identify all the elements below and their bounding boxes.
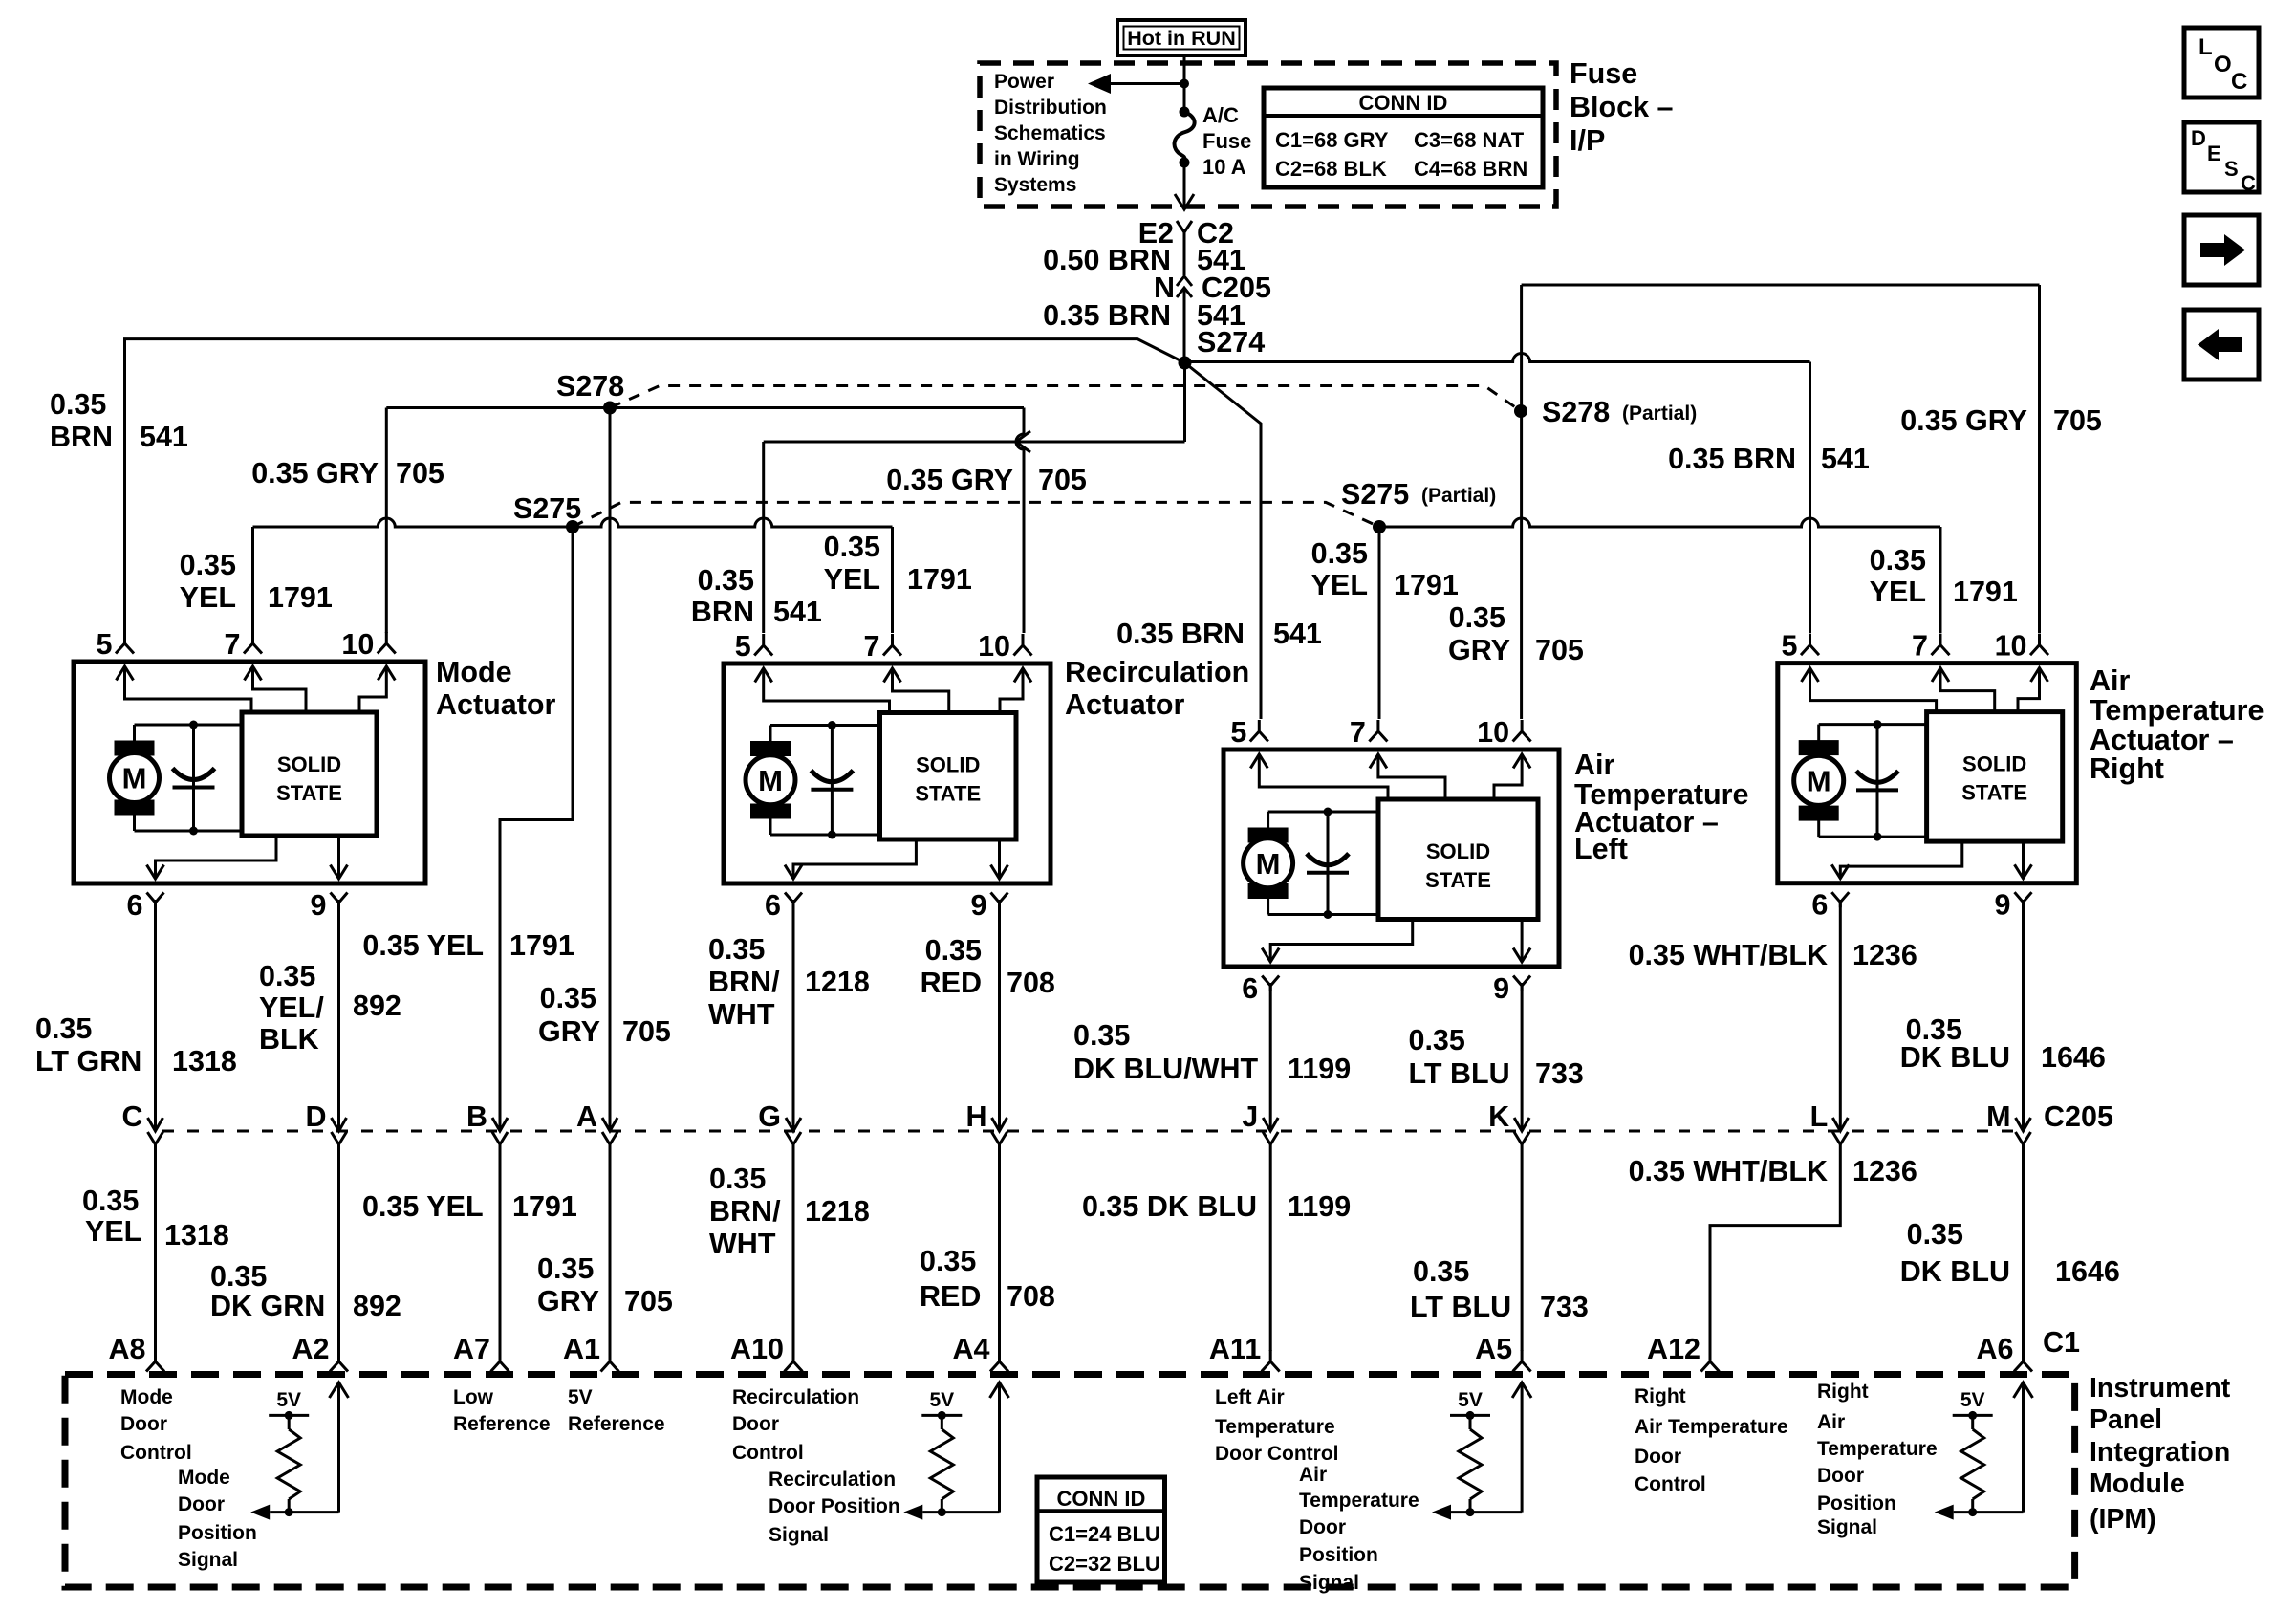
mode actuator pin 9 connector [311,889,348,922]
label 0.35 YEL 1791 (mode pin7) [180,549,333,614]
svg-text:Position: Position [1299,1544,1378,1566]
svg-text:Signal: Signal [769,1524,829,1546]
svg-text:705: 705 [624,1285,673,1317]
svg-text:Recirculation: Recirculation [1065,656,1249,688]
label 0.35 DK BLU 1646 (lower) [1900,1218,2120,1288]
svg-text:541: 541 [140,421,188,453]
connector A at C205 [576,1100,617,1144]
svg-text:Signal: Signal [1817,1516,1877,1538]
label 0.35 YEL 1318 (lower) [82,1185,229,1252]
label C1 (IPM connector) [2043,1326,2080,1359]
label Mode Door Control [120,1386,192,1464]
air temperature actuator right pin 7 internal wire [1932,668,1995,712]
CONN ID table (IPM) [1037,1477,1165,1582]
svg-text:S: S [2224,157,2239,181]
svg-text:Door: Door [1299,1516,1346,1538]
wire GRY 705 over S274 line to Air Temp Left pin10 [1520,285,1523,719]
svg-text:0.35: 0.35 [920,1245,976,1277]
svg-text:Air: Air [1817,1411,1845,1433]
recirculation actuator pin 6 internal wire [785,839,916,879]
svg-text:M: M [122,762,147,795]
svg-text:Door: Door [120,1413,167,1435]
svg-text:S278: S278 [1542,396,1610,428]
svg-text:10: 10 [978,630,1010,663]
svg-text:M: M [1986,1100,2010,1133]
mode actuator solid state module [242,712,377,836]
resistor 5V pull-up (right air temp position) [1935,1382,2033,1520]
wire arrow to power distribution (continues left) [1088,74,1184,94]
svg-text:541: 541 [1273,618,1322,650]
svg-text:CONN ID: CONN ID [1359,91,1448,115]
svg-text:Temperature: Temperature [1299,1490,1419,1512]
svg-text:0.35: 0.35 [1870,544,1926,577]
svg-text:SOLID: SOLID [1962,752,2026,776]
svg-text:C: C [121,1100,142,1133]
fuse block dashed box (Fuse Block - I/P) [980,63,1556,207]
svg-text:Power: Power [994,71,1054,93]
svg-text:M: M [1256,847,1281,881]
connector L at C205 [1810,1100,1849,1144]
svg-text:WHT: WHT [708,998,775,1031]
svg-text:O: O [2214,52,2232,77]
svg-text:5V: 5V [1960,1389,1985,1411]
recirculation actuator pin 9 connector [971,889,1008,922]
CONN ID table (fuse block) [1264,88,1543,187]
label Recirculation Door Position Signal [769,1469,900,1546]
svg-text:GRY: GRY [538,1015,600,1048]
air temperature actuator right motor supply rails [1819,725,1927,838]
resistor 5V pull-up (left air temp position) [1432,1382,1531,1520]
svg-text:0.35: 0.35 [35,1012,92,1045]
svg-text:705: 705 [1038,464,1087,496]
svg-text:7: 7 [864,630,880,663]
mode actuator pin 7 connector [225,628,262,661]
recirculation actuator pin 7 internal wire [884,668,949,713]
wire YEL 1791 S275 to connector B [500,527,573,1131]
svg-text:0.35 BRN: 0.35 BRN [1116,618,1245,650]
label 0.35 GRY 705 (mode pin10) [251,457,444,490]
svg-text:5: 5 [97,628,113,661]
wire DK BLU 1646 connector M to IPM A6 [2022,1143,2025,1351]
label 0.35 GRY 705 (connector A upper) [538,982,671,1048]
label 0.35 BRN 541 (right) [1668,443,1870,475]
icon LOC box [2184,28,2259,98]
label Mode Actuator [436,656,556,721]
svg-text:Distribution: Distribution [994,97,1107,119]
svg-text:0.35: 0.35 [708,933,765,966]
svg-text:6: 6 [765,889,781,922]
svg-text:H: H [965,1100,986,1133]
air temperature actuator right pin 10 connector [1995,630,2048,663]
svg-text:WHT: WHT [709,1228,776,1260]
svg-text:0.35 WHT/BLK: 0.35 WHT/BLK [1629,1155,1828,1187]
svg-text:1199: 1199 [1288,1053,1351,1085]
recirculation actuator pin 10 connector [978,630,1031,663]
mode actuator pin 10 internal wire [359,666,395,712]
svg-text:C: C [2231,69,2247,95]
svg-text:Air: Air [1574,749,1615,781]
svg-text:5V: 5V [276,1389,301,1411]
svg-text:YEL: YEL [180,581,236,614]
open arrow leaving fuse block [1175,194,1194,209]
label Left Air Temperature Door Control [1215,1386,1338,1465]
svg-text:0.35: 0.35 [1409,1024,1465,1056]
svg-text:6: 6 [127,889,143,922]
svg-text:1236: 1236 [1852,1155,1917,1187]
svg-text:Reference: Reference [568,1413,665,1435]
label 0.35 WHT/BLK 1236 (lower) [1629,1155,1917,1187]
svg-text:0.35: 0.35 [537,1252,594,1285]
label S278 (Partial) [1542,396,1697,428]
svg-text:Door: Door [732,1413,779,1435]
label 0.35 YEL 1791 (air temp right) [1870,544,2018,608]
svg-text:0.35: 0.35 [50,388,106,421]
label Mode Door Position Signal [178,1467,257,1571]
recirculation actuator pin 6 connector [765,889,802,922]
mode actuator pin 5 connector [97,628,134,661]
svg-text:Hot in RUN: Hot in RUN [1127,27,1235,50]
air temperature actuator left pin 6 internal wire [1262,920,1413,963]
svg-text:1318: 1318 [164,1219,229,1252]
svg-text:Right: Right [2090,752,2164,785]
svg-text:Systems: Systems [994,174,1076,196]
svg-text:0.35: 0.35 [709,1163,766,1195]
wire BRN 541 to Mode pin5 (left run) [125,339,1185,633]
splice S278 (Partial) [1514,404,1527,418]
svg-text:DK BLU/WHT: DK BLU/WHT [1073,1053,1258,1085]
svg-text:Signal: Signal [1299,1572,1359,1594]
wire DK BLU 1646 Air Temp Right pin9 to connector M [2022,900,2025,1131]
svg-text:C205: C205 [2044,1100,2113,1133]
connector G at C205 [758,1100,801,1144]
svg-text:1218: 1218 [805,966,870,998]
label 0.35 RED 708 (lower) [920,1245,1055,1313]
svg-text:0.35: 0.35 [925,934,982,967]
svg-text:DK GRN: DK GRN [210,1290,325,1322]
wire LT BLU 733 connector K to IPM A5 [1521,1143,1524,1351]
svg-text:0.35 GRY: 0.35 GRY [886,464,1013,496]
wire YEL 1791 to Air Temp Right pin7 [1379,518,1940,633]
svg-text:5V: 5V [568,1386,593,1408]
svg-text:0.35 GRY: 0.35 GRY [251,457,379,490]
svg-text:YEL: YEL [824,563,880,596]
air temperature actuator left box [1224,750,1559,967]
svg-text:Temperature: Temperature [2090,694,2264,727]
connector K at C205 [1488,1100,1529,1144]
svg-text:10: 10 [1995,630,2027,663]
IPM pin A11 connector [1209,1333,1280,1372]
label A/C Fuse 10 A [1202,103,1251,179]
svg-text:Control: Control [120,1442,192,1464]
svg-text:892: 892 [353,1290,401,1322]
connector D at C205 [305,1100,346,1144]
svg-text:Integration: Integration [2090,1437,2230,1468]
recirculation actuator motor supply rails [770,726,880,836]
wire WHT/BLK 1236 Air Temp Right pin6 to connector L [1839,900,1842,1131]
recirculation actuator pin 5 connector [735,630,772,663]
label 0.35 BRN 541 (feed) [1043,299,1245,332]
label 0.35 LT GRN 1318 [35,1012,237,1078]
wire GRY 705 to Air Temp Right pin10 [1522,285,2040,633]
label Right Air Temperature Door Control [1635,1385,1788,1495]
svg-text:9: 9 [1995,889,2011,922]
svg-text:Block –: Block – [1570,91,1674,123]
svg-text:0.35: 0.35 [180,549,236,581]
air temperature actuator left pin 5 connector [1230,716,1267,749]
label S274 [1197,326,1265,359]
fuse F A/C 10A element [1175,107,1195,168]
wire WHT/BLK 1236 connector L to IPM A12 [1710,1143,1840,1351]
label 0.35 GRY 705 (recirc pin10) [886,464,1087,496]
icon DESC box [2184,122,2259,195]
connector N-C205 on feed wire [1154,272,1271,304]
connector E2-C2 on feed wire [1138,217,1234,250]
label 0.35 DK BLU/WHT 1199 [1073,1019,1351,1085]
svg-text:1791: 1791 [512,1190,577,1223]
label 0.35 LT BLU 733 [1409,1024,1584,1090]
svg-text:Mode: Mode [178,1467,230,1489]
svg-text:I/P: I/P [1570,124,1605,157]
dashed link S275 to S275 partial [573,502,1379,527]
svg-text:C4=68 BRN: C4=68 BRN [1414,157,1527,181]
wire LT GRN 1318 Mode pin6 to connector C [154,900,157,1131]
label 0.35 BRN/WHT 1218 (lower) [709,1163,870,1260]
svg-text:0.35: 0.35 [1311,537,1368,570]
svg-text:733: 733 [1540,1291,1589,1323]
svg-text:1646: 1646 [2055,1255,2120,1288]
wire RED 708 connector H to IPM A4 [998,1143,1001,1351]
svg-text:10: 10 [1477,716,1509,749]
recirculation actuator capacitor [811,721,853,839]
svg-text:RED: RED [920,1280,981,1313]
wire DK GRN 892 connector D to IPM A2 [337,1143,340,1351]
svg-text:M: M [758,764,783,797]
svg-text:Door Control: Door Control [1215,1443,1338,1465]
svg-text:BRN: BRN [691,596,754,628]
recirculation actuator pin 7 connector [864,630,901,663]
label 0.35 DK BLU 1199 (lower) [1082,1190,1351,1223]
svg-text:S274: S274 [1197,326,1265,359]
label Power Distribution Schematics in Wiring Systems [994,71,1107,196]
svg-text:(Partial): (Partial) [1421,485,1496,507]
label 5V Reference [568,1386,665,1435]
wire fuse output to connector E2 [1183,163,1186,208]
svg-text:C: C [2241,171,2256,195]
air temperature actuator left motor supply rails [1268,812,1378,915]
air temperature actuator left pin 9 connector [1493,972,1530,1005]
svg-text:Right: Right [1817,1381,1869,1403]
svg-text:DK BLU: DK BLU [1900,1041,2010,1074]
label 0.35 GRY 705 (air temp right) [1900,404,2102,437]
svg-text:0.35: 0.35 [1073,1019,1130,1052]
label 0.50 BRN 541 [1043,244,1245,276]
svg-text:Left: Left [1574,833,1628,865]
svg-text:0.35 DK BLU: 0.35 DK BLU [1082,1190,1257,1223]
svg-text:5V: 5V [929,1389,954,1411]
mode actuator pin 6 internal wire [147,836,277,879]
svg-text:Actuator: Actuator [1065,688,1185,721]
svg-text:YEL/: YEL/ [259,991,324,1024]
svg-text:6: 6 [1811,889,1828,922]
svg-text:A2: A2 [292,1333,330,1365]
wire RED 708 Recirculation pin9 to connector H [998,900,1001,1131]
chevron arrow on BRN run [1016,431,1030,452]
svg-text:Module: Module [2090,1469,2185,1499]
svg-text:1318: 1318 [172,1045,237,1078]
splice S275 (Partial) [1373,520,1386,533]
label Air Temperature Door Position Signal [1299,1464,1419,1594]
air temperature actuator right pin 7 connector [1912,630,1949,663]
air temperature actuator left pin 5 internal wire [1250,754,1388,799]
recirculation actuator box [724,664,1051,883]
label 0.35 YEL 1791 (connector B upper) [362,929,574,962]
wire BRN 541 to Recirculation pin5 (S274 down-west run) [764,363,1185,634]
svg-text:5: 5 [1782,630,1798,663]
svg-text:A5: A5 [1475,1333,1512,1365]
IPM pin A4 connector [953,1333,1009,1372]
recirculation actuator pin 5 internal wire [755,668,890,713]
svg-text:Control: Control [732,1442,804,1464]
svg-text:0.35: 0.35 [82,1185,139,1217]
svg-text:0.35 YEL: 0.35 YEL [362,929,484,962]
air temperature actuator left pin 6 connector [1242,972,1279,1005]
svg-text:D: D [2191,126,2206,150]
wire YEL/BLK 892 Mode pin9 to connector D [337,900,340,1131]
svg-text:Door: Door [1635,1446,1681,1468]
splice S274 [1179,357,1192,370]
mode actuator pin 10 connector [341,628,395,661]
svg-text:1791: 1791 [1953,576,2018,608]
svg-text:C1=24 BLU: C1=24 BLU [1049,1522,1160,1546]
svg-text:0.35: 0.35 [210,1260,267,1293]
svg-text:1791: 1791 [907,563,972,596]
svg-text:0.35 WHT/BLK: 0.35 WHT/BLK [1629,939,1828,971]
svg-text:A1: A1 [563,1333,600,1365]
svg-text:Reference: Reference [453,1413,551,1435]
label S275 [513,492,581,525]
svg-text:705: 705 [1535,634,1584,666]
air temperature actuator right motor M [1794,725,1844,838]
wire BRN/WHT 1218 connector G to IPM A10 [792,1143,795,1351]
label 0.35 DK BLU 1646 (upper) [1900,1013,2106,1074]
svg-text:YEL: YEL [1870,576,1926,608]
svg-text:Control: Control [1635,1473,1706,1495]
svg-text:STATE: STATE [1961,781,2027,805]
air temperature actuator left capacitor [1307,808,1349,920]
svg-text:LT BLU: LT BLU [1409,1057,1510,1090]
svg-text:1791: 1791 [1394,569,1459,601]
svg-text:Door: Door [178,1493,225,1515]
wire YEL 1791 connector B to IPM A7 [499,1143,502,1351]
label 0.35 BRN 541 (left) [50,388,188,453]
svg-text:in Wiring: in Wiring [994,148,1080,170]
svg-text:705: 705 [396,457,444,490]
svg-text:0.35: 0.35 [259,960,315,992]
label 0.35 GRY 705 (air temp left) [1448,601,1584,666]
wire DK BLU 1199 connector J to IPM A11 [1269,1143,1272,1351]
svg-text:6: 6 [1242,972,1258,1005]
svg-text:S275: S275 [513,492,581,525]
mode actuator pin 9 internal wire [331,836,348,879]
svg-text:S275: S275 [1341,478,1409,511]
svg-text:0.35 GRY: 0.35 GRY [1900,404,2027,437]
svg-text:SOLID: SOLID [1426,839,1490,863]
svg-text:Right: Right [1635,1385,1686,1407]
svg-text:A6: A6 [1977,1333,2014,1365]
svg-text:Door Position: Door Position [769,1495,900,1517]
mode actuator capacitor [173,721,215,836]
svg-text:LT GRN: LT GRN [35,1045,141,1078]
air temperature actuator right pin 6 connector [1811,889,1849,922]
svg-text:705: 705 [2053,404,2102,437]
air temperature actuator right pin 5 internal wire [1802,668,1937,712]
air temperature actuator left pin 9 internal wire [1513,920,1530,963]
svg-text:CONN ID: CONN ID [1057,1487,1146,1511]
wire GRY 705 connector A to IPM A1 [609,1143,612,1351]
svg-text:0.35: 0.35 [540,982,596,1014]
svg-text:GRY: GRY [1448,634,1510,666]
label Right Air Temperature Door Position Signal [1817,1381,1938,1538]
svg-text:(IPM): (IPM) [2090,1504,2156,1535]
svg-text:C1: C1 [2043,1326,2080,1359]
svg-text:A: A [576,1100,597,1133]
svg-text:708: 708 [1007,1280,1055,1313]
svg-text:S278: S278 [556,370,624,403]
label 0.35 WHT/BLK 1236 (upper) [1629,939,1917,971]
label 0.35 YEL 1791 (air temp left) [1311,537,1459,601]
air temperature actuator right pin 6 internal wire [1831,841,1962,879]
label Fuse Block - I/P [1570,57,1674,157]
svg-text:Mode: Mode [120,1386,173,1408]
resistor 5V pull-up (recirculation position) [903,1382,1008,1520]
air temperature actuator right solid state module [1927,712,2063,842]
connector J at C205 [1242,1100,1278,1144]
node junction on hot feed [1180,79,1189,89]
svg-text:0.35: 0.35 [1449,601,1505,634]
svg-text:Panel: Panel [2090,1404,2162,1435]
wire hot feed from Hot in RUN into fuse block [1183,55,1186,112]
svg-text:Temperature: Temperature [1817,1438,1938,1460]
svg-text:Mode: Mode [436,656,512,688]
mode actuator box [74,662,425,883]
svg-text:J: J [1242,1100,1258,1133]
wire BRN 541 to Air Temp Left pin5 (S274 diagonal) [1185,363,1262,720]
svg-text:A/C: A/C [1202,103,1239,127]
svg-text:5: 5 [735,630,751,663]
icon forward arrow box [2184,215,2259,285]
svg-text:BRN/: BRN/ [708,966,780,998]
air temperature actuator left pin 7 connector [1350,716,1387,749]
svg-text:M: M [1807,764,1831,797]
IPM pin A7 connector [453,1333,509,1372]
svg-text:1791: 1791 [509,929,574,962]
svg-text:RED: RED [921,967,982,999]
svg-text:Air: Air [2090,664,2131,697]
svg-text:9: 9 [971,889,987,922]
label Air Temperature Actuator - Right [2090,664,2264,785]
connector M at C205 [1986,1100,2030,1144]
wire feed E2 to C205 [1183,232,1186,275]
svg-text:(Partial): (Partial) [1622,403,1697,425]
svg-text:C3=68 NAT: C3=68 NAT [1414,128,1525,152]
svg-text:10: 10 [341,628,374,661]
svg-text:L: L [2199,34,2213,60]
label 0.35 BRN 541 (air temp left) [1116,618,1322,650]
svg-text:Recirculation: Recirculation [769,1469,896,1491]
IPM pin A5 connector [1475,1333,1531,1372]
air temperature actuator left pin 10 connector [1477,716,1530,749]
air temperature actuator right pin 5 connector [1782,630,1819,663]
